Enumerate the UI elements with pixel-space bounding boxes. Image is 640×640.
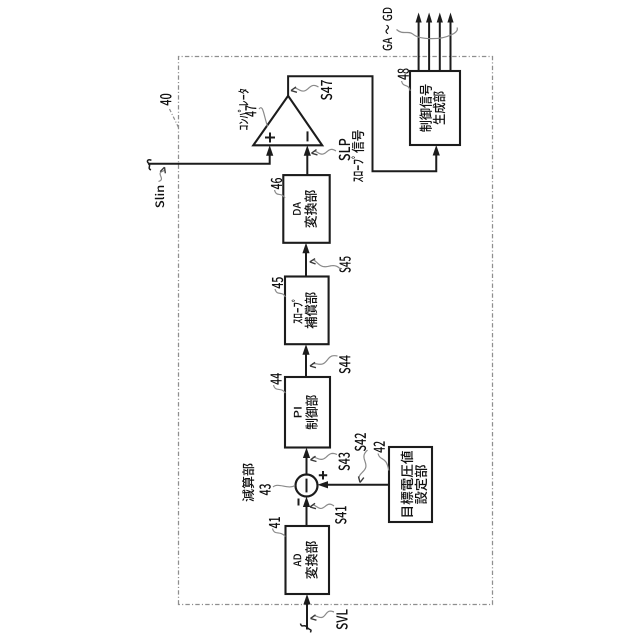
wire subtractor to block 44 (signal S43) <box>303 448 310 475</box>
leader from label 45 to block 45 <box>275 289 285 297</box>
label S41 <box>335 506 346 524</box>
input wire SVL into block 41 <box>303 594 310 630</box>
label 44 <box>271 373 282 384</box>
leader from label 41 to block 41 <box>273 529 286 537</box>
label 48 <box>398 68 409 79</box>
leader from S42 label to wire S42 <box>359 450 368 483</box>
label 40 <box>160 94 171 106</box>
label 46 <box>271 178 282 189</box>
label SVL <box>336 609 347 629</box>
leader from label 46 to block 46 <box>275 190 286 198</box>
block 42 target voltage value setting unit (目標電圧値設定部) <box>389 447 432 522</box>
label S45 <box>339 257 350 273</box>
label 45 <box>272 277 283 288</box>
leader from label 48 to block 48 <box>402 81 411 91</box>
plus sign inside comparator <box>265 133 275 143</box>
wire block 44 to block 45 (signal S44) <box>302 344 309 377</box>
wire block 42 up to subtractor plus input (signal S42) <box>318 481 390 488</box>
leader arc from GA-GD label across the four output arrows <box>397 28 458 39</box>
gate drive output arrow GD from block 48 <box>447 13 453 72</box>
wire block 46 to comparator minus input (SLP slope signal) <box>304 145 311 175</box>
label S44 <box>339 355 350 373</box>
leader from S47 label to comparator output wire <box>291 85 319 92</box>
leader from S43 label to wire S43 <box>311 453 338 461</box>
label 43 <box>259 484 270 495</box>
block 45 slope compensation unit (スロープ補償部) <box>285 277 329 345</box>
comparator output wire S47 routed to block 48 <box>288 76 436 171</box>
minus sign at feedback input of subtractor <box>298 499 300 506</box>
leader from S41 label to wire S41 <box>310 503 334 508</box>
wire block 41 to subtractor (signal S41) <box>303 497 310 527</box>
label S42 <box>355 433 366 451</box>
label コンパレータ (comparator) <box>238 89 249 130</box>
comparator 47 triangle <box>253 96 322 146</box>
label 41 <box>269 517 280 528</box>
gate drive output arrow GA from block 48 <box>416 13 422 72</box>
wire block 45 to block 46 (signal S45) <box>302 243 309 277</box>
leader from label 42 to block 42 <box>378 454 389 471</box>
gate drive output arrow GC from block 48 <box>437 13 443 72</box>
plus sign at target-value input of subtractor <box>319 471 327 480</box>
arrowhead of comparator output wire into block 48 <box>433 145 440 156</box>
leader from SVL label to input wire <box>311 611 335 620</box>
label GA to GD <box>383 8 393 51</box>
label 42 <box>374 441 385 452</box>
label スロープ信号 (slope signal) <box>351 130 364 182</box>
label 減算部 (subtractor) <box>242 463 254 501</box>
leader from label 43 to subtractor circle <box>273 485 295 487</box>
leader from S44 label to wire S44 <box>310 356 338 368</box>
label SLP <box>339 139 350 161</box>
gate drive output arrow GB from block 48 <box>426 13 432 72</box>
leader from label 47 to comparator triangle <box>259 108 268 127</box>
leader from Slin label to Slin wire <box>159 167 166 181</box>
break tilde on Slin wire <box>147 160 151 170</box>
block 48 control signal generation unit (制御信号生成部) <box>410 71 460 145</box>
leader from S45 label to wire S45 <box>310 259 341 270</box>
block 44 PI control unit (PI制御部) <box>285 377 330 448</box>
break tilde on SVL wire <box>300 624 311 633</box>
subtractor circle 43 (減算部) <box>296 475 318 497</box>
label S47 <box>321 80 332 100</box>
label 47 <box>245 105 256 116</box>
block 41 AD converter (AD 変換部) <box>286 526 330 594</box>
block 46 DA converter (DA変換部) <box>283 175 329 243</box>
minus sign inside comparator <box>307 131 309 141</box>
wire Slin to comparator plus input <box>148 145 273 163</box>
leader from label 44 to block 44 <box>274 385 286 393</box>
dash-dot boundary box of switching control unit 40 <box>179 57 493 605</box>
label Slin <box>155 186 164 208</box>
leader from SLP label to slope signal wire <box>312 149 337 155</box>
dash-dot leader for label 40 <box>170 109 179 128</box>
label S43 <box>338 453 349 471</box>
